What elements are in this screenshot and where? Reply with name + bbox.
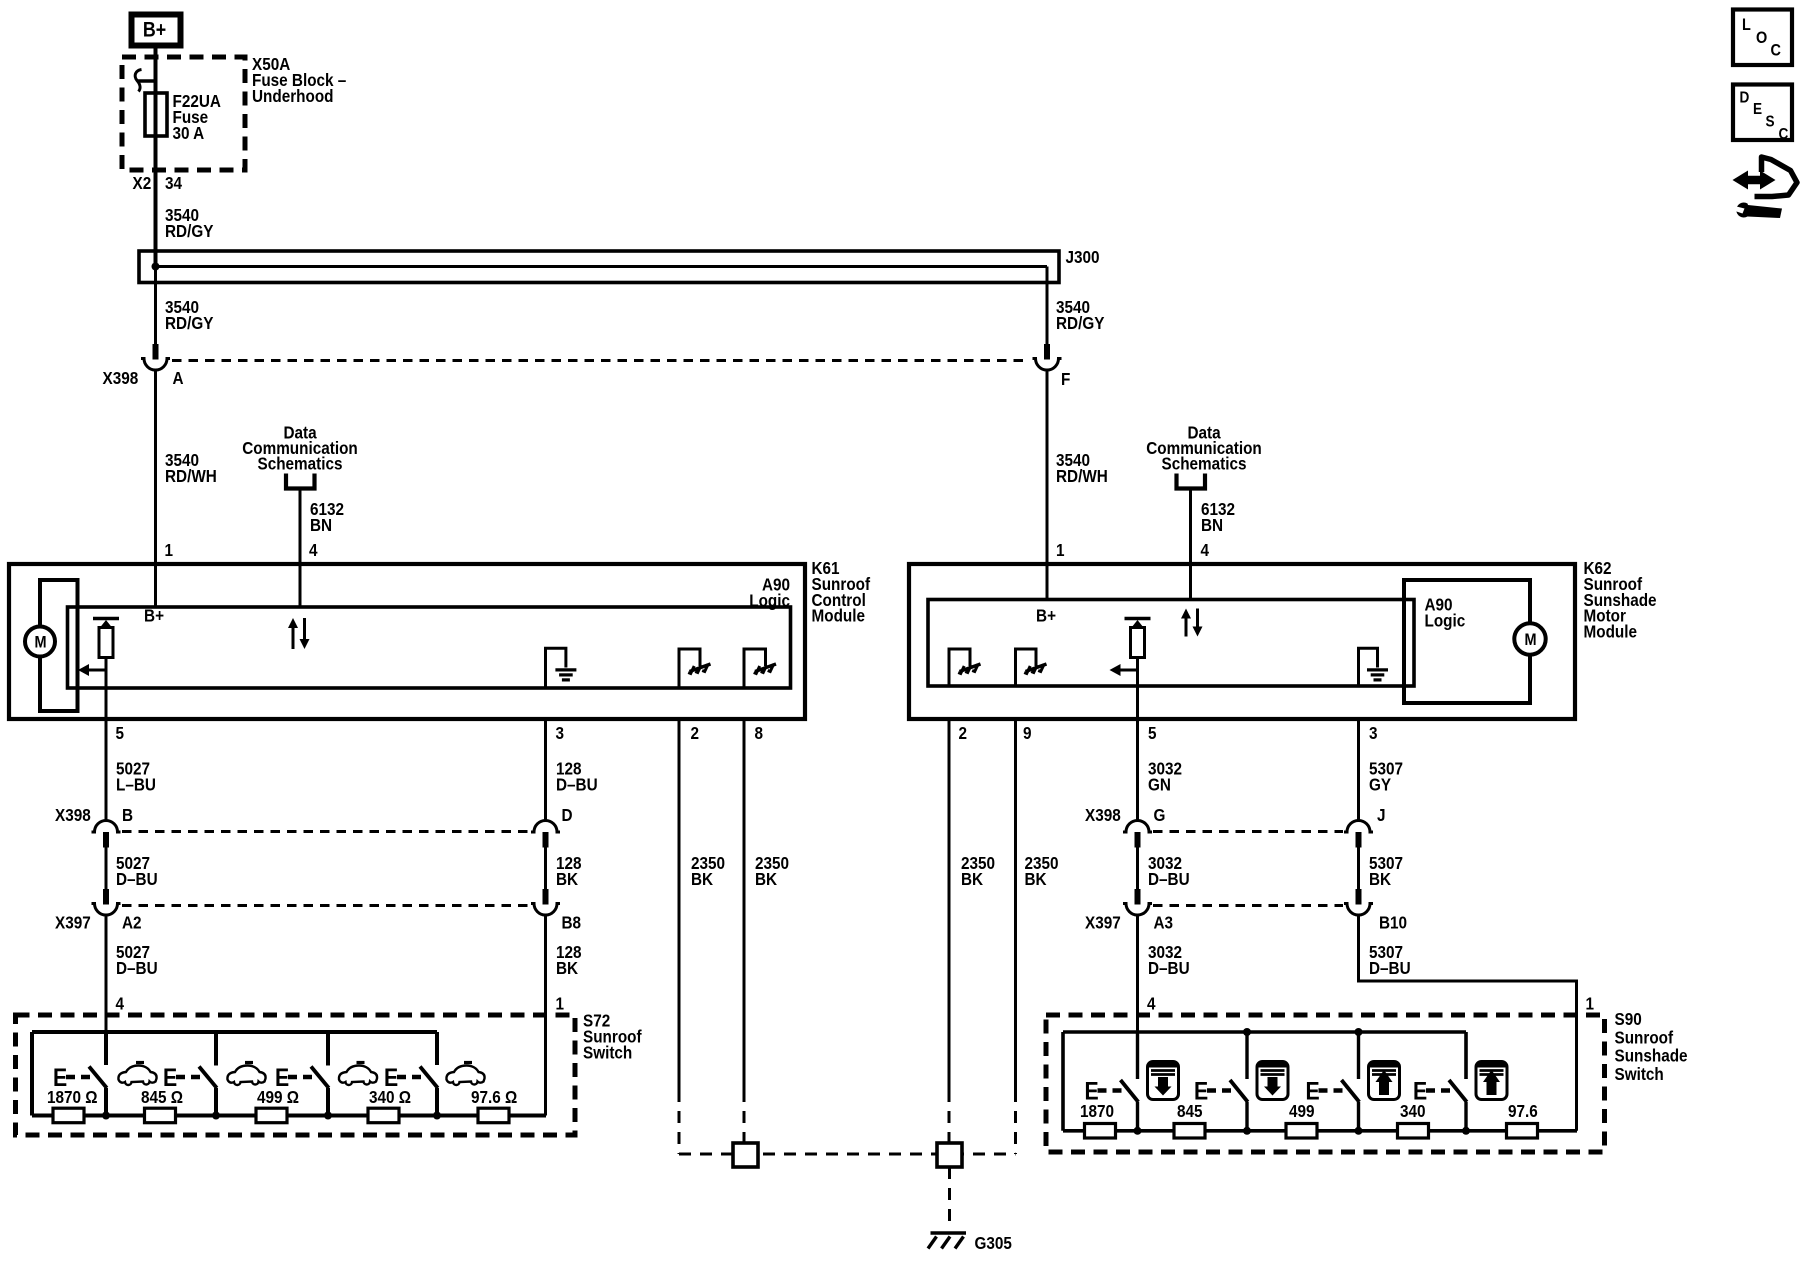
A90 logic label K61 — [749, 574, 790, 610]
svg-text:X397: X397 — [1085, 912, 1121, 932]
connector X397 pin B10 — [1344, 889, 1373, 915]
svg-text:RD/GY: RD/GY — [165, 221, 213, 241]
svg-text:G305: G305 — [975, 1233, 1012, 1253]
S72 resistor R4 — [368, 1108, 399, 1123]
svg-text:499 Ω: 499 Ω — [257, 1087, 299, 1107]
connector X398 pin J — [1344, 821, 1373, 848]
wire: X397 B8 to S72 pin1 — [544, 916, 547, 1116]
svg-text:B: B — [122, 805, 133, 825]
svg-text:S: S — [1766, 114, 1775, 131]
X397 A3-B10 dashed line — [1153, 904, 1343, 907]
svg-text:L: L — [1742, 16, 1751, 34]
S90 switch blade 1 — [1121, 1080, 1142, 1135]
svg-text:D: D — [562, 805, 573, 825]
svg-text:GN: GN — [1148, 774, 1171, 794]
chassis ground symbol K61 pin2 — [688, 664, 710, 674]
svg-text:Switch: Switch — [1615, 1064, 1664, 1084]
S90 resistor R4 — [1398, 1124, 1429, 1139]
svg-text:BK: BK — [556, 869, 578, 889]
svg-text:3: 3 — [1369, 723, 1378, 743]
svg-text:1870: 1870 — [1080, 1101, 1114, 1121]
wire: K62 pin9 ground solid — [1014, 719, 1017, 1090]
connector X397 pin A3 — [1123, 889, 1152, 915]
svg-text:D–BU: D–BU — [1369, 958, 1411, 978]
car icon 2 — [227, 1063, 265, 1086]
wire label 128 BK lower — [556, 942, 582, 978]
K62 motor loop box A90 — [1404, 580, 1530, 703]
wire label 5027 L-BU — [116, 758, 156, 794]
svg-text:J: J — [1377, 805, 1386, 825]
wire: X398 D to X397 B8 — [544, 848, 547, 890]
svg-text:BN: BN — [310, 515, 332, 535]
K61 designator label — [812, 558, 871, 626]
open/close arrows K61 — [288, 618, 310, 649]
S90 designator label — [1615, 1009, 1688, 1084]
svg-text:Underhood: Underhood — [252, 86, 334, 106]
svg-text:A: A — [173, 368, 184, 388]
wire: X398 J to X397 B10 — [1357, 848, 1360, 890]
wire: K62 pin2 ground solid — [948, 719, 951, 1090]
data communication schematics note right — [1146, 422, 1261, 473]
car icon 1 (tilt) — [118, 1063, 156, 1086]
wire label 3540 RD/WH right — [1056, 450, 1108, 486]
wire label 2350 BK a — [691, 853, 725, 889]
K62 designator label — [1584, 558, 1657, 642]
wire: data comm to K62 pin 4 — [1189, 489, 1192, 600]
chassis ground wire K62 pin2 — [949, 649, 970, 686]
S90 resistor R1 — [1085, 1124, 1116, 1139]
wire: K61 pin5 inside module — [105, 670, 108, 719]
svg-text:BK: BK — [556, 958, 578, 978]
svg-text:M: M — [34, 633, 46, 651]
svg-text:Logic: Logic — [1425, 610, 1466, 630]
chassis ground symbol K62 pin9 — [1024, 664, 1046, 674]
wire label 5307 GY — [1369, 758, 1403, 794]
dashed ground bus line — [679, 1153, 1016, 1156]
svg-text:J300: J300 — [1066, 247, 1100, 267]
junction dot J300 — [152, 263, 160, 271]
fuse F22UA label — [173, 91, 221, 143]
svg-text:BK: BK — [691, 869, 713, 889]
svg-text:X398: X398 — [55, 805, 91, 825]
S90 right top-bus corner — [1464, 1032, 1468, 1079]
wire label 3032 D-BU mid — [1148, 853, 1190, 889]
switch S72 dashed box — [16, 1015, 576, 1135]
wire: K61 pin2 ground solid — [678, 719, 681, 1090]
wire: X398 G to X397 A3 — [1136, 848, 1139, 890]
svg-text:B10: B10 — [1379, 912, 1407, 932]
car icon 4 — [446, 1063, 484, 1086]
svg-text:X398: X398 — [1085, 805, 1121, 825]
connector X397 pin B8 — [531, 889, 560, 915]
svg-text:X2: X2 — [133, 173, 152, 193]
connector X398 pin F — [1033, 344, 1062, 370]
svg-text:D–BU: D–BU — [116, 869, 158, 889]
S90 left edge — [1061, 1032, 1065, 1131]
S90 bus dot cell2 — [1243, 1028, 1251, 1036]
X398 B-D dashed line — [122, 830, 530, 833]
svg-text:Module: Module — [1584, 621, 1637, 641]
S90 switch blade 4 — [1449, 1080, 1470, 1135]
wire label 5307 D-BU lower — [1369, 942, 1411, 978]
fuse block X50A dashed box — [122, 57, 245, 170]
svg-text:O: O — [1756, 29, 1767, 47]
svg-text:499: 499 — [1289, 1101, 1315, 1121]
E actuator 2 S90 — [1194, 1077, 1231, 1105]
svg-text:4: 4 — [1201, 540, 1210, 560]
E actuator 2 S72 — [163, 1063, 200, 1091]
wire label 6132 BN left — [310, 499, 344, 535]
A90 logic label K62 — [1425, 594, 1466, 630]
wire label 128 BK mid — [556, 853, 582, 889]
wire label 128 D-BU — [556, 758, 598, 794]
wire: J300 down to X398 A — [154, 267, 157, 345]
svg-text:2: 2 — [691, 723, 700, 743]
svg-text:1: 1 — [165, 540, 174, 560]
wire label 3540 RD/WH left — [165, 450, 217, 486]
svg-text:D–BU: D–BU — [556, 774, 598, 794]
svg-text:RD/GY: RD/GY — [165, 313, 213, 333]
splice S1 — [733, 1143, 758, 1167]
wire: X398 B to X397 A2 — [105, 848, 108, 890]
svg-text:5: 5 — [116, 723, 125, 743]
wire: X397 B10 jog to S90 pin1 — [1359, 916, 1577, 1131]
wire label 5027 D-BU lower — [116, 942, 158, 978]
S90 top bus — [1063, 1030, 1466, 1034]
S72 right top-bus corner — [435, 1032, 439, 1065]
sunshade icon 4 (open) — [1476, 1062, 1507, 1100]
fuse F22UA body — [145, 93, 167, 136]
wire: data comm to K61 pin 4 — [299, 489, 302, 608]
connector X398 pin G — [1123, 821, 1152, 848]
svg-text:RD/WH: RD/WH — [165, 466, 217, 486]
E actuator 1 S90 — [1085, 1077, 1122, 1105]
svg-text:BK: BK — [1025, 869, 1047, 889]
svg-text:D–BU: D–BU — [116, 958, 158, 978]
power feed B+ box — [132, 15, 181, 46]
fuse block terminal hook — [135, 70, 141, 92]
wire: K61 pin2 ground dashed — [678, 1090, 681, 1154]
S72 resistor R3 — [256, 1108, 287, 1123]
svg-text:845 Ω: 845 Ω — [141, 1087, 183, 1107]
svg-text:BN: BN — [1201, 515, 1223, 535]
wire: J300 down to X398 F — [1046, 267, 1049, 345]
svg-text:340 Ω: 340 Ω — [369, 1087, 411, 1107]
wire label 3032 GN — [1148, 758, 1182, 794]
svg-text:1: 1 — [1056, 540, 1065, 560]
wire label 2350 BK c — [961, 853, 995, 889]
ground G305 symbol — [928, 1233, 966, 1249]
sunshade icon 1 (close) — [1148, 1062, 1179, 1100]
svg-text:97.6: 97.6 — [1508, 1101, 1538, 1121]
wire label 3032 D-BU lower — [1148, 942, 1190, 978]
svg-text:M: M — [1524, 631, 1536, 649]
connector X398 pin A — [141, 344, 170, 370]
wire: S72 pin4 into bus — [104, 1032, 108, 1065]
X398 G-J dashed line — [1153, 830, 1343, 833]
svg-text:Switch: Switch — [583, 1042, 632, 1062]
wire: K62 pin9 ground dashed — [1014, 1090, 1017, 1154]
svg-text:1: 1 — [556, 993, 565, 1013]
svg-text:Logic: Logic — [749, 590, 790, 610]
svg-text:D: D — [1740, 90, 1750, 107]
wire: K62 pin2 ground dashed — [948, 1090, 951, 1143]
chassis ground symbol K61 pin8 — [754, 664, 776, 674]
earth ground bars K62 — [1367, 670, 1388, 680]
svg-text:A2: A2 — [122, 912, 142, 932]
wire label 3540 RD/GY left — [165, 297, 213, 333]
wire inside J300 — [156, 265, 1048, 268]
wire label 5027 D-BU mid — [116, 853, 158, 889]
svg-text:RD/GY: RD/GY — [1056, 313, 1104, 333]
svg-text:B+: B+ — [144, 605, 164, 625]
chassis ground wire K62 pin9 — [1016, 649, 1037, 686]
svg-text:A3: A3 — [1154, 912, 1174, 932]
svg-text:97.6 Ω: 97.6 Ω — [471, 1087, 517, 1107]
wire: K61 pin8 ground dashed — [743, 1090, 746, 1143]
svg-text:X398: X398 — [103, 368, 139, 388]
svg-text:C: C — [1771, 41, 1781, 59]
svg-text:RD/WH: RD/WH — [1056, 466, 1108, 486]
motor drive output symbol K61 — [78, 619, 119, 677]
S90 resistor R3 — [1286, 1124, 1317, 1139]
S72 left edge — [30, 1032, 34, 1116]
connector X398 pin B — [92, 821, 121, 848]
svg-text:1870 Ω: 1870 Ω — [47, 1087, 98, 1107]
svg-text:D–BU: D–BU — [1148, 958, 1190, 978]
S90 resistor R5 — [1507, 1124, 1538, 1139]
wire: K62 pin5 down — [1136, 719, 1139, 820]
S90 bottom bus — [1063, 1129, 1577, 1133]
wire: K61 pin3 down — [544, 719, 547, 820]
motor M1 in K61 — [25, 627, 55, 657]
J300 junction block — [139, 251, 1059, 283]
S72 bottom bus — [32, 1114, 546, 1118]
svg-text:G: G — [1154, 805, 1166, 825]
E actuator 3 S72 — [275, 1063, 312, 1091]
svg-text:B8: B8 — [562, 912, 582, 932]
motor M2 in K62 — [1514, 623, 1545, 654]
svg-text:4: 4 — [1147, 993, 1156, 1013]
S72 switch blade 1 — [89, 1067, 110, 1120]
splice S2 — [937, 1143, 962, 1167]
car icon 3 — [339, 1063, 377, 1086]
module K61 logic inner box — [68, 607, 791, 688]
wire: X397 A2 to S72 pin4 — [105, 916, 108, 1032]
module K62 logic inner box — [928, 600, 1414, 687]
S72 resistor R1 — [53, 1108, 84, 1123]
svg-text:4: 4 — [116, 993, 125, 1013]
module K62 outer box — [909, 564, 1575, 719]
module K61 outer box — [9, 564, 805, 719]
DESC reference box — [1733, 85, 1792, 144]
chassis ground symbol K62 pin2 — [958, 664, 980, 674]
S72 switch blade 3 — [311, 1032, 332, 1120]
connector X398 pin D — [531, 821, 560, 848]
wire label 2350 BK b — [755, 853, 789, 889]
S72 resistor R5 — [478, 1108, 509, 1123]
chassis ground wire K61 pin8 — [744, 649, 766, 688]
open/close arrows K62 — [1181, 609, 1203, 637]
wire: K62 pin5 inside module — [1136, 670, 1139, 719]
svg-text:1: 1 — [1586, 993, 1595, 1013]
E actuator 4 S90 — [1413, 1077, 1450, 1105]
wire: X397 A3 to S90 pin4 — [1136, 916, 1139, 1032]
earth ground wire K62 pin3 — [1359, 648, 1378, 686]
sunshade icon 2 (close) — [1257, 1062, 1288, 1100]
wire: B+ feed down through fuse to J300 — [154, 48, 158, 267]
S72 switch blade 4 — [420, 1067, 441, 1120]
svg-text:D–BU: D–BU — [1148, 869, 1190, 889]
earth ground bars K61 — [555, 670, 576, 680]
connector X397 pin A2 — [92, 889, 121, 915]
svg-text:30 A: 30 A — [173, 123, 205, 143]
svg-text:L–BU: L–BU — [116, 774, 156, 794]
data communication schematics note left — [242, 422, 357, 473]
off-page bracket left — [286, 474, 315, 489]
dashed wire to G305 — [948, 1167, 951, 1229]
LOC reference box — [1733, 10, 1792, 66]
X50A fuse block label — [252, 54, 346, 106]
svg-text:5: 5 — [1148, 723, 1157, 743]
E actuator 1 S72 — [53, 1063, 90, 1091]
svg-text:340: 340 — [1400, 1101, 1426, 1121]
S72 switch blade 2 — [199, 1032, 220, 1120]
chassis ground wire K61 pin2 — [679, 649, 700, 688]
E actuator 3 S90 — [1306, 1077, 1343, 1105]
svg-text:E: E — [1753, 101, 1762, 118]
svg-text:3: 3 — [556, 723, 565, 743]
svg-text:GY: GY — [1369, 774, 1391, 794]
E actuator 4 S72 — [384, 1063, 421, 1091]
navigation arrows and wrench icon — [1733, 157, 1798, 218]
wire: X398 A to K61 pin 1 — [154, 371, 157, 607]
terminal T-bar — [138, 79, 157, 82]
wire: K61 pin5 down — [105, 719, 108, 820]
svg-text:4: 4 — [309, 540, 318, 560]
X398 A-F dashed connector line — [172, 359, 1030, 362]
S72 top bus — [32, 1030, 437, 1034]
off-page bracket right — [1177, 474, 1206, 489]
wire: K62 pin3 down — [1357, 719, 1360, 820]
S90 switch blade 2 — [1230, 1032, 1251, 1135]
svg-text:BK: BK — [961, 869, 983, 889]
S90 bus dot cell3 — [1355, 1028, 1363, 1036]
svg-text:Schematics: Schematics — [258, 453, 343, 473]
svg-text:F: F — [1061, 369, 1070, 389]
svg-text:B+: B+ — [143, 18, 166, 42]
wire label 3540 RD/GY — [165, 205, 213, 241]
svg-text:845: 845 — [1177, 1101, 1203, 1121]
S72 designator label — [583, 1010, 642, 1062]
svg-text:B+: B+ — [1036, 605, 1056, 625]
svg-text:34: 34 — [165, 173, 183, 193]
svg-text:Module: Module — [812, 606, 865, 626]
svg-text:C: C — [1779, 126, 1789, 143]
wire: K61 pin8 ground solid — [743, 719, 746, 1090]
svg-text:BK: BK — [755, 869, 777, 889]
svg-text:9: 9 — [1023, 723, 1032, 743]
K61 motor winding loop — [40, 580, 78, 711]
X397 A2-B8 dashed line — [122, 904, 530, 907]
svg-text:8: 8 — [755, 723, 764, 743]
S90 switch blade 3 — [1342, 1032, 1363, 1135]
S90 resistor R2 — [1174, 1124, 1205, 1139]
svg-text:2: 2 — [959, 723, 968, 743]
wire: S90 pin4 into bus — [1136, 1032, 1139, 1079]
wire label 3540 RD/GY right — [1056, 297, 1104, 333]
wire label 2350 BK d — [1025, 853, 1059, 889]
motor drive output symbol K62 — [1110, 619, 1151, 677]
sunshade icon 3 (open) — [1369, 1062, 1400, 1100]
wire label 5307 BK mid — [1369, 853, 1403, 889]
wire: X398 F to K62 pin 1 — [1046, 371, 1049, 600]
earth ground inside K61 pin3 — [546, 648, 566, 688]
wire label 6132 BN right — [1201, 499, 1235, 535]
svg-text:Schematics: Schematics — [1162, 453, 1247, 473]
svg-text:BK: BK — [1369, 869, 1391, 889]
S72 resistor R2 — [145, 1108, 176, 1123]
svg-text:X397: X397 — [55, 912, 91, 932]
switch S90 dashed box — [1046, 1015, 1605, 1152]
